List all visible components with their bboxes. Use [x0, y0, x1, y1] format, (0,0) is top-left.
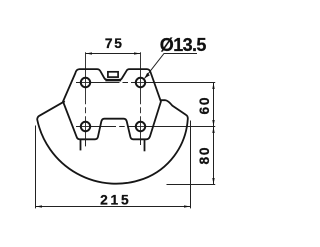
- svg-text:Ø13.5: Ø13.5: [160, 35, 207, 55]
- svg-text:75: 75: [105, 36, 124, 51]
- svg-text:60: 60: [197, 96, 212, 115]
- svg-text:215: 215: [100, 193, 131, 208]
- svg-text:80: 80: [197, 146, 212, 165]
